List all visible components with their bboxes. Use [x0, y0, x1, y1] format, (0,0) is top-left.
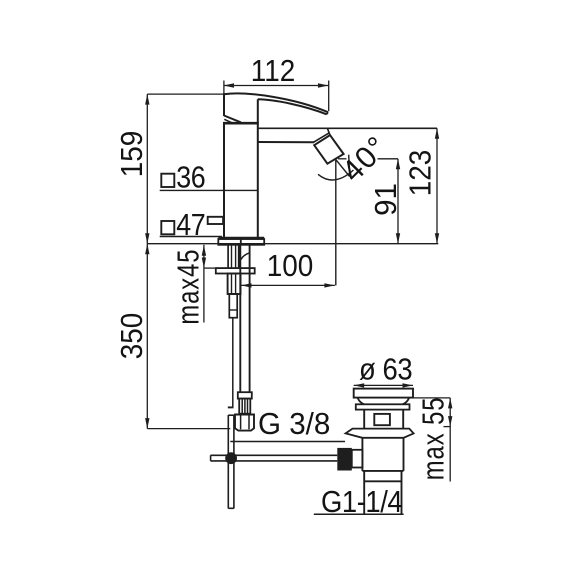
svg-text:max45: max45 — [171, 249, 206, 325]
svg-text:159: 159 — [115, 131, 150, 178]
aerator rotated square — [314, 135, 343, 164]
max45 dimension line — [203, 245, 205, 323]
drain top flange — [354, 389, 413, 398]
dimension 112 right arrow — [318, 83, 329, 87]
hose break mark — [241, 253, 250, 260]
drain lower cone — [346, 429, 414, 438]
drain second ring — [356, 404, 410, 409]
washer under deck — [216, 268, 255, 273]
pivot rod vertical — [227, 415, 229, 509]
dimension 91 line — [397, 159, 399, 244]
dimension 123 line — [436, 128, 438, 243]
drain tailpipe — [363, 471, 365, 514]
drain knob neck — [352, 450, 363, 468]
dimension 112 left extension line — [223, 81, 225, 95]
svg-text:max 55: max 55 — [416, 397, 451, 481]
mounting stud thread lines — [227, 245, 229, 268]
dimension 159 top reference line — [147, 93, 224, 95]
faucet body right edge — [257, 99, 259, 238]
horizontal pivot rod — [211, 454, 338, 456]
drain overflow square hole — [374, 414, 390, 425]
hose crimp collar — [238, 392, 252, 398]
dimension 350 bottom arrow — [145, 418, 149, 429]
aerator cap line — [313, 133, 329, 143]
dimension 112 line — [224, 85, 329, 87]
dimension 91 top arrow — [396, 159, 400, 170]
faucet body top line — [223, 122, 259, 125]
label G1-1/4 underline — [314, 513, 404, 515]
pull rod bottom hook — [228, 406, 234, 408]
dimension 100 line — [241, 284, 335, 286]
angle arc 40 degrees — [318, 170, 354, 180]
dimension 123 bottom arrow — [435, 233, 439, 244]
dimension 91 reference line right segment — [378, 158, 399, 160]
max45 bottom arrow — [202, 258, 206, 269]
label 47 pointer tab — [208, 217, 223, 224]
supply hose right edge — [249, 245, 251, 392]
dimension 350 top arrow — [145, 244, 149, 255]
pivot ball — [225, 452, 237, 464]
svg-text:350: 350 — [115, 313, 150, 360]
lever handle tip edge — [327, 112, 328, 114]
dimension 159 top arrow — [145, 94, 149, 105]
pop-up pull rod — [232, 318, 234, 407]
max55 tick — [444, 426, 451, 428]
drain diameter dimension line — [354, 384, 413, 386]
lever handle top edge — [224, 93, 328, 112]
base plate top thick edge — [218, 237, 264, 240]
dimension 159 bottom arrow — [145, 233, 149, 244]
base plate — [218, 239, 264, 245]
drain neck right curve — [403, 398, 410, 405]
max45 top arrow — [202, 245, 206, 256]
label square-36 symbol — [161, 174, 174, 187]
label 47 underline — [160, 236, 222, 238]
angle vertex vertical reference line — [335, 160, 337, 286]
svg-text:100: 100 — [267, 249, 314, 284]
label 36 underline — [160, 189, 258, 191]
lever notch slant — [224, 119, 232, 123]
angle arrowhead leg — [349, 155, 350, 177]
dimension 91 bottom arrow — [396, 233, 400, 244]
drain lower body — [361, 438, 363, 471]
svg-text:ø 63: ø 63 — [359, 353, 412, 387]
max55 bottom arrow — [448, 416, 452, 427]
spout bottom line — [258, 141, 314, 143]
spout outlet front edge — [327, 128, 329, 134]
max45 tick to washer — [204, 267, 218, 269]
stud lower end — [229, 294, 237, 318]
spout top line and 123 reference line — [258, 127, 437, 129]
max55 reference line — [413, 397, 450, 399]
dimension 350 bottom reference line — [147, 428, 230, 430]
svg-text:91: 91 — [369, 183, 403, 216]
svg-text:112: 112 — [251, 53, 295, 88]
dimension 123 top arrow — [435, 128, 439, 139]
lever handle bottom slant — [224, 116, 241, 123]
svg-text:G 3/8: G 3/8 — [258, 408, 330, 441]
dimension 100 right arrow — [324, 283, 335, 287]
dimension 91 reference line left segment — [338, 158, 347, 160]
deck mounting surface line — [147, 243, 438, 245]
max55 top arrow — [448, 398, 452, 409]
dimension 112 right extension line — [328, 81, 330, 112]
max55 dimension line — [449, 398, 451, 482]
angle slanted ray 40 deg from vertical — [336, 160, 350, 177]
mounting nut — [228, 274, 241, 295]
svg-text:123: 123 — [403, 150, 438, 197]
G3/8 hex nut — [235, 415, 254, 431]
faucet body left edge — [223, 123, 225, 238]
label G 3/8 underline — [230, 441, 345, 443]
label square-47 symbol — [161, 221, 174, 234]
dimension 159/350 vertical line — [146, 94, 148, 429]
supply hose left edge — [239, 245, 241, 392]
base plate center divider — [240, 238, 242, 245]
lever handle left edge — [223, 93, 225, 116]
dimension 100 left arrow — [241, 283, 252, 287]
drain neck left curve — [358, 398, 365, 405]
dimension 112 left arrow — [224, 83, 235, 87]
drain mid body — [363, 410, 365, 430]
lever handle inner edge — [258, 99, 327, 114]
hose ribbed section — [239, 399, 250, 414]
drain knob black — [337, 448, 352, 471]
